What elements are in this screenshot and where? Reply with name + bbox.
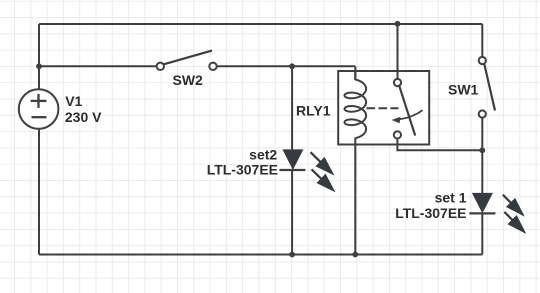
svg-text:SW2: SW2 (173, 72, 204, 88)
svg-text:RLY1: RLY1 (296, 103, 331, 119)
svg-text:V1: V1 (65, 93, 82, 109)
svg-text:LTL-307EE: LTL-307EE (207, 162, 278, 178)
svg-text:set2: set2 (249, 147, 277, 163)
svg-text:LTL-307EE: LTL-307EE (395, 205, 466, 221)
svg-text:SW1: SW1 (448, 82, 479, 98)
svg-text:set 1: set 1 (435, 190, 467, 206)
svg-text:230 V: 230 V (65, 109, 102, 125)
